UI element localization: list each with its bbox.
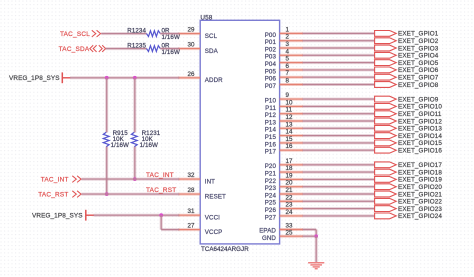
svg-text:P24: P24 xyxy=(265,192,277,199)
off-page port EXET_GPIO7 xyxy=(375,74,439,81)
svg-text:EXET_GPIO10: EXET_GPIO10 xyxy=(398,104,442,111)
svg-text:EPAD: EPAD xyxy=(259,228,276,235)
svg-text:EXET_GPIO6: EXET_GPIO6 xyxy=(398,67,439,74)
svg-text:EXET_GPIO7: EXET_GPIO7 xyxy=(398,75,439,82)
svg-text:19: 19 xyxy=(286,172,294,179)
svg-text:P02: P02 xyxy=(265,46,277,53)
wire net EXET_GPIO7 (pin 7 to port) xyxy=(303,76,375,79)
svg-text:14: 14 xyxy=(286,129,294,136)
pin 4 P03 of U58 xyxy=(265,48,303,60)
wire net EXET_GPIO8 (pin 8 to port) xyxy=(303,83,375,86)
wire net EXET_GPIO13 (pin 13 to port) xyxy=(303,127,375,130)
pin 21 P24 of U58 xyxy=(265,187,303,199)
op-amp/IC U58 body (TCA6424A I/O expander) xyxy=(200,20,279,244)
wire net EXET_GPIO12 (pin 12 to port) xyxy=(303,120,375,123)
svg-text:P10: P10 xyxy=(265,98,277,105)
wire R915 bottom to TAC_RST net xyxy=(105,147,108,194)
wire net EXET_GPIO17 (pin 17 to port) xyxy=(303,163,375,166)
svg-text:P26: P26 xyxy=(265,207,277,214)
pin 8 P07 of U58 xyxy=(265,78,303,90)
svg-text:17: 17 xyxy=(286,158,294,165)
wire EPAD (pin 33) to ground column xyxy=(303,228,317,231)
power port VREG_1P8_SYS (top) xyxy=(9,72,70,83)
svg-text:INT: INT xyxy=(205,178,215,185)
off-page port EXET_GPIO3 xyxy=(375,45,439,52)
wire net SDA (R1235 to pin 30) xyxy=(160,47,179,50)
pin 23 P26 of U58 xyxy=(265,202,303,214)
svg-text:11: 11 xyxy=(286,107,293,114)
svg-text:13: 13 xyxy=(286,121,294,128)
svg-text:9: 9 xyxy=(286,92,290,99)
svg-text:25: 25 xyxy=(286,230,294,237)
svg-text:GND: GND xyxy=(262,235,276,242)
svg-text:P07: P07 xyxy=(265,83,277,90)
svg-text:SCL: SCL xyxy=(205,33,218,40)
svg-text:EXET_GPIO14: EXET_GPIO14 xyxy=(398,133,442,140)
svg-text:P00: P00 xyxy=(265,32,277,39)
pin 24 P27 of U58 xyxy=(265,209,303,221)
pin 20 P23 of U58 xyxy=(265,180,303,192)
svg-text:EXET_GPIO9: EXET_GPIO9 xyxy=(398,96,439,103)
off-page port EXET_GPIO9 xyxy=(375,96,439,103)
svg-text:VCCP: VCCP xyxy=(205,229,223,236)
off-page port EXET_GPIO22 xyxy=(375,198,443,205)
svg-text:TAC_INT: TAC_INT xyxy=(146,172,174,179)
svg-text:P17: P17 xyxy=(265,149,277,156)
off-page port EXET_GPIO13 xyxy=(375,125,443,132)
resistor R1234 0R 1/16W xyxy=(127,28,180,41)
pin 29 SCL of U58 xyxy=(178,27,217,40)
wire net EXET_GPIO1 (pin 1 to port) xyxy=(303,32,375,35)
resistor R915 10K 1/16W xyxy=(103,130,129,149)
wire GND (pin 25) to ground column xyxy=(303,235,317,238)
svg-text:P11: P11 xyxy=(265,105,276,112)
pin 32 INT of U58 xyxy=(178,172,215,185)
svg-text:10: 10 xyxy=(286,99,294,106)
pin 19 P22 of U58 xyxy=(265,172,303,184)
wire net TAC_INT (port to pin 32) xyxy=(81,178,179,181)
svg-text:TAC_SDA: TAC_SDA xyxy=(59,46,90,53)
svg-text:EXET_GPIO5: EXET_GPIO5 xyxy=(398,60,439,67)
wire R1231 bottom to TAC_INT net xyxy=(133,147,136,179)
pin 30 SDA of U58 xyxy=(178,42,218,55)
svg-text:31: 31 xyxy=(188,208,196,215)
pin 13 P14 of U58 xyxy=(265,121,303,133)
wire net TAC_RST (port to pin 28) xyxy=(81,193,179,196)
resistor R1231 10K 1/16W xyxy=(131,130,160,149)
wire VREG_1P8_SYS to R1231 top xyxy=(133,78,136,133)
svg-text:1: 1 xyxy=(286,26,290,33)
wire VCCI branch down to VCCP row xyxy=(160,215,163,229)
svg-text:P01: P01 xyxy=(265,39,277,46)
wire net EXET_GPIO3 (pin 3 to port) xyxy=(303,47,375,50)
svg-text:EXET_GPIO11: EXET_GPIO11 xyxy=(398,111,442,118)
power port VREG_1P8_SYS (bottom) xyxy=(32,210,94,221)
svg-text:1/16W: 1/16W xyxy=(111,142,129,149)
pin 7 P06 of U58 xyxy=(265,70,303,82)
off-page port EXET_GPIO15 xyxy=(375,140,443,147)
svg-text:P04: P04 xyxy=(265,61,277,68)
off-page port EXET_GPIO12 xyxy=(375,118,443,125)
svg-text:VREG_1P8_SYS: VREG_1P8_SYS xyxy=(32,212,83,219)
svg-text:7: 7 xyxy=(286,70,290,77)
svg-text:26: 26 xyxy=(188,71,196,78)
svg-text:24: 24 xyxy=(286,209,294,216)
off-page port EXET_GPIO21 xyxy=(375,191,443,198)
svg-text:EXET_GPIO20: EXET_GPIO20 xyxy=(398,184,442,191)
svg-text:R1234: R1234 xyxy=(127,28,146,35)
pin 5 P04 of U58 xyxy=(265,56,303,68)
pin 17 P20 of U58 xyxy=(265,158,303,170)
svg-text:EXET_GPIO24: EXET_GPIO24 xyxy=(398,213,442,220)
svg-text:EXET_GPIO15: EXET_GPIO15 xyxy=(398,140,442,147)
off-page port EXET_GPIO8 xyxy=(375,82,439,89)
svg-text:P13: P13 xyxy=(265,119,277,126)
svg-text:12: 12 xyxy=(286,114,294,121)
svg-text:1/16W: 1/16W xyxy=(140,142,158,149)
wire net EXET_GPIO11 (pin 11 to port) xyxy=(303,112,375,115)
off-page port EXET_GPIO1 xyxy=(375,31,439,38)
off-page port EXET_GPIO11 xyxy=(375,111,442,118)
svg-text:15: 15 xyxy=(286,136,294,143)
svg-text:TCA6424ARGJR: TCA6424ARGJR xyxy=(201,246,249,253)
wire net TAC_SCL (port to R1234) xyxy=(101,32,146,35)
off-page port EXET_GPIO6 xyxy=(375,67,439,74)
svg-text:32: 32 xyxy=(188,172,196,179)
wire net EXET_GPIO20 (pin 20 to port) xyxy=(303,185,375,188)
svg-text:30: 30 xyxy=(188,42,196,49)
svg-text:P12: P12 xyxy=(265,112,277,119)
wire net EXET_GPIO6 (pin 6 to port) xyxy=(303,68,375,71)
resistor R1235 0R 1/16W xyxy=(127,43,180,56)
pin 16 P17 of U58 xyxy=(265,143,303,155)
svg-text:6: 6 xyxy=(286,63,290,70)
junction R1231/TAC_INT xyxy=(133,177,137,181)
svg-text:RESET: RESET xyxy=(205,193,226,200)
wire net EXET_GPIO5 (pin 5 to port) xyxy=(303,61,375,64)
svg-text:P20: P20 xyxy=(265,163,277,170)
svg-text:U58: U58 xyxy=(200,14,212,21)
wire net EXET_GPIO9 (pin 9 to port) xyxy=(303,98,375,101)
ground symbol xyxy=(308,263,324,269)
svg-text:VCCI: VCCI xyxy=(205,214,220,221)
pin 31 VCCI of U58 xyxy=(178,208,220,221)
wire to VCCP pin 27 xyxy=(161,228,179,231)
svg-text:4: 4 xyxy=(286,48,290,55)
pin 33 EPAD of U58 xyxy=(259,223,303,235)
svg-text:EXET_GPIO16: EXET_GPIO16 xyxy=(398,148,442,155)
svg-text:P25: P25 xyxy=(265,200,277,207)
svg-text:EXET_GPIO1: EXET_GPIO1 xyxy=(398,31,439,38)
pin 3 P02 of U58 xyxy=(265,41,303,53)
pin 27 VCCP of U58 xyxy=(178,223,222,236)
pin 2 P01 of U58 xyxy=(265,34,303,46)
svg-text:23: 23 xyxy=(286,202,294,209)
wire net EXET_GPIO15 (pin 15 to port) xyxy=(303,141,375,144)
svg-text:EXET_GPIO18: EXET_GPIO18 xyxy=(398,169,442,176)
port TAC_INT (input chevrons) xyxy=(41,176,81,184)
svg-text:20: 20 xyxy=(286,180,294,187)
port TAC_SCL (input, double chevron) xyxy=(60,30,101,38)
wire net EXET_GPIO23 (pin 23 to port) xyxy=(303,207,375,210)
svg-text:EXET_GPIO17: EXET_GPIO17 xyxy=(398,162,442,169)
svg-text:TAC_RST: TAC_RST xyxy=(38,191,68,198)
svg-text:EXET_GPIO13: EXET_GPIO13 xyxy=(398,126,442,133)
svg-text:EXET_GPIO12: EXET_GPIO12 xyxy=(398,118,442,125)
svg-text:P21: P21 xyxy=(265,171,277,178)
svg-text:P06: P06 xyxy=(265,76,277,83)
junction VREG/R915 xyxy=(105,76,109,80)
wire net VREG_1P8_SYS (to VCCI pin 31) xyxy=(94,214,180,217)
wire ground stem xyxy=(315,236,318,262)
svg-text:21: 21 xyxy=(286,187,294,194)
svg-text:29: 29 xyxy=(188,27,196,34)
svg-text:P16: P16 xyxy=(265,141,277,148)
svg-text:2: 2 xyxy=(286,34,290,41)
wire EPAD down to GND net xyxy=(315,230,318,237)
wire net EXET_GPIO24 (pin 24 to port) xyxy=(303,214,375,217)
svg-text:TAC_INT: TAC_INT xyxy=(41,176,69,183)
pin 11 P12 of U58 xyxy=(265,107,303,119)
off-page port EXET_GPIO14 xyxy=(375,133,443,140)
wire VREG_1P8_SYS to R915 top xyxy=(105,78,108,133)
pin 22 P25 of U58 xyxy=(265,194,303,206)
pin 18 P21 of U58 xyxy=(265,165,303,177)
wire net EXET_GPIO19 (pin 19 to port) xyxy=(303,178,375,181)
junction R915/TAC_RST xyxy=(105,192,109,196)
svg-text:P22: P22 xyxy=(265,178,277,185)
off-page port EXET_GPIO20 xyxy=(375,184,443,191)
svg-text:3: 3 xyxy=(286,41,290,48)
svg-text:TAC_RST: TAC_RST xyxy=(146,187,176,194)
svg-text:TAC_SCL: TAC_SCL xyxy=(60,31,90,38)
pin 1 P00 of U58 xyxy=(265,26,303,38)
svg-text:P15: P15 xyxy=(265,134,277,141)
off-page port EXET_GPIO19 xyxy=(375,177,443,184)
svg-text:EXET_GPIO19: EXET_GPIO19 xyxy=(398,177,442,184)
svg-text:P05: P05 xyxy=(265,68,277,75)
svg-text:EXET_GPIO2: EXET_GPIO2 xyxy=(398,38,439,45)
svg-text:28: 28 xyxy=(188,187,196,194)
wire net EXET_GPIO4 (pin 4 to port) xyxy=(303,54,375,57)
port TAC_SDA (bidirectional, chevrons both ways) xyxy=(59,45,106,53)
svg-text:P27: P27 xyxy=(265,214,277,221)
wire net EXET_GPIO21 (pin 21 to port) xyxy=(303,193,375,196)
svg-text:EXET_GPIO21: EXET_GPIO21 xyxy=(398,191,442,198)
wire net EXET_GPIO18 (pin 18 to port) xyxy=(303,171,375,174)
svg-text:ADDR: ADDR xyxy=(205,77,223,84)
pin 9 P10 of U58 xyxy=(265,92,303,104)
svg-text:27: 27 xyxy=(188,223,196,230)
svg-text:R1235: R1235 xyxy=(127,43,146,50)
pin 28 RESET of U58 xyxy=(178,187,226,200)
pin 26 ADDR of U58 xyxy=(178,71,223,84)
svg-text:8: 8 xyxy=(286,78,290,85)
svg-text:16: 16 xyxy=(286,143,294,150)
junction GND/ground stem xyxy=(314,234,318,238)
wire net EXET_GPIO22 (pin 22 to port) xyxy=(303,200,375,203)
off-page port EXET_GPIO5 xyxy=(375,60,439,67)
off-page port EXET_GPIO24 xyxy=(375,213,443,220)
pin 10 P11 of U58 xyxy=(265,99,303,111)
pin 14 P15 of U58 xyxy=(265,129,303,141)
svg-text:33: 33 xyxy=(286,223,294,230)
off-page port EXET_GPIO23 xyxy=(375,206,443,213)
svg-text:5: 5 xyxy=(286,56,290,63)
svg-text:P14: P14 xyxy=(265,127,277,134)
wire net VREG_1P8_SYS (to ADDR pin 26) xyxy=(70,76,179,79)
wire net TAC_SDA (port to R1235) xyxy=(106,47,147,50)
svg-text:22: 22 xyxy=(286,194,294,201)
svg-text:P03: P03 xyxy=(265,54,277,61)
svg-text:18: 18 xyxy=(286,165,294,172)
svg-text:EXET_GPIO4: EXET_GPIO4 xyxy=(398,53,439,60)
svg-text:P23: P23 xyxy=(265,185,277,192)
off-page port EXET_GPIO16 xyxy=(375,147,443,154)
junction VREG/R1231 xyxy=(133,76,137,80)
off-page port EXET_GPIO17 xyxy=(375,162,443,169)
svg-text:VREG_1P8_SYS: VREG_1P8_SYS xyxy=(9,75,60,82)
pin 15 P16 of U58 xyxy=(265,136,303,148)
svg-text:EXET_GPIO8: EXET_GPIO8 xyxy=(398,82,439,89)
pin 12 P13 of U58 xyxy=(265,114,303,126)
off-page port EXET_GPIO2 xyxy=(375,38,439,45)
pin 6 P05 of U58 xyxy=(265,63,303,75)
wire net EXET_GPIO10 (pin 10 to port) xyxy=(303,105,375,108)
svg-text:EXET_GPIO22: EXET_GPIO22 xyxy=(398,199,442,206)
off-page port EXET_GPIO10 xyxy=(375,104,443,111)
pin 25 GND of U58 xyxy=(262,230,303,242)
wire net EXET_GPIO2 (pin 2 to port) xyxy=(303,39,375,42)
svg-text:EXET_GPIO3: EXET_GPIO3 xyxy=(398,45,439,52)
off-page port EXET_GPIO18 xyxy=(375,169,443,176)
junction VCCI/VCCP branch xyxy=(159,213,163,217)
wire net SCL (R1234 to pin 29) xyxy=(160,32,179,35)
port TAC_RST (input chevrons) xyxy=(38,191,81,199)
svg-text:EXET_GPIO23: EXET_GPIO23 xyxy=(398,206,442,213)
off-page port EXET_GPIO4 xyxy=(375,52,439,59)
wire net EXET_GPIO16 (pin 16 to port) xyxy=(303,149,375,152)
svg-text:SDA: SDA xyxy=(205,48,219,55)
wire net EXET_GPIO14 (pin 14 to port) xyxy=(303,134,375,137)
